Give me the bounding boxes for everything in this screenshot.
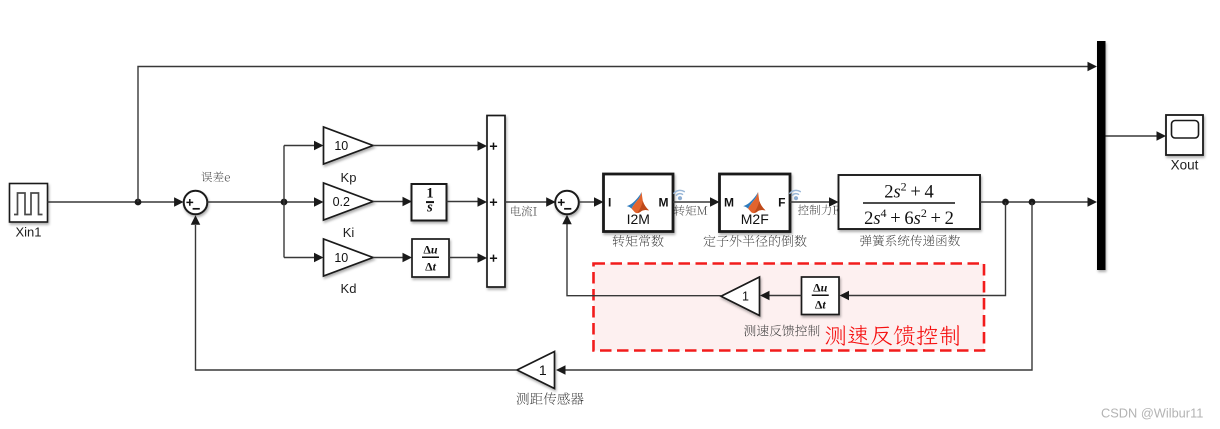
wire distance sensor to sum1 bottom (191, 215, 517, 370)
MATLAB function block M2F (720, 174, 791, 232)
integrator block 1/s (412, 184, 447, 221)
MATLAB function block I2M (604, 174, 674, 232)
svg-text:Δu: Δu (813, 281, 828, 295)
svg-text:2s2 + 4: 2s2 + 4 (884, 180, 934, 203)
svg-text:2s4 + 6s2 + 2: 2s4 + 6s2 + 2 (864, 206, 954, 229)
label 电流I (511, 206, 537, 217)
svg-text:Δt: Δt (425, 260, 437, 274)
wire branch vertical (283, 146, 285, 258)
label 测速反馈控制 (small) (744, 325, 819, 337)
svg-text:M: M (659, 196, 669, 210)
wire transfer fn to mux (980, 197, 1097, 207)
node branch point PID (281, 199, 288, 206)
svg-text:10: 10 (334, 139, 348, 153)
label 弹簧系统传递函数 (860, 235, 960, 247)
wire junction down to derivative fb (840, 202, 1006, 300)
svg-text:M2F: M2F (741, 211, 769, 227)
wire Kp to sum block (373, 141, 487, 151)
wire mux to scope (1106, 131, 1167, 141)
svg-text:10: 10 (334, 251, 348, 265)
mux bar (1097, 41, 1106, 270)
label 转矩M (674, 205, 707, 216)
wire sum block to sum2 (505, 197, 556, 207)
wire branch to Kp (284, 141, 324, 151)
node junction to rate feedback (1002, 199, 1009, 206)
node junction to position feedback (1029, 199, 1036, 206)
svg-text:CSDN @Wilbur11: CSDN @Wilbur11 (1101, 406, 1203, 421)
scope block Xout (1166, 115, 1203, 155)
wire M2F to transfer fn (790, 197, 839, 207)
wire Xin1 to sum1 (48, 197, 184, 207)
wire sum1 to Ki gain (207, 197, 323, 207)
gain Kd value 10 (324, 239, 374, 276)
svg-text:1: 1 (539, 362, 547, 378)
label 定子外半径的倒数 (704, 235, 807, 247)
pulse generator block Xin1 (10, 184, 48, 223)
red dashed annotation box 测速反馈控制 (594, 264, 985, 351)
svg-text:I2M: I2M (627, 211, 650, 227)
label 控制力F (798, 205, 839, 216)
svg-text:Δu: Δu (423, 243, 438, 257)
label 转矩常数 (613, 235, 664, 247)
svg-text:Xin1: Xin1 (15, 225, 41, 240)
logging badge wifi 2 (790, 190, 801, 201)
wire derivative fb to gain fb (760, 291, 802, 301)
wire gain fb to sum2 bottom (562, 215, 721, 296)
sum block (rectangle, three plus inputs) (487, 116, 505, 288)
svg-text:I: I (608, 196, 611, 210)
svg-text:F: F (778, 196, 785, 210)
wire derivative to sum block (449, 253, 487, 263)
gain block 1 distance sensor (points left) (517, 352, 555, 389)
gain Ki value 0.2 (324, 183, 374, 220)
derivative block du/dt (412, 239, 449, 277)
svg-text:0.2: 0.2 (333, 195, 350, 209)
gain Kp value 10 (324, 127, 374, 164)
logging badge wifi 1 (674, 190, 685, 201)
svg-text:Kp: Kp (341, 170, 357, 185)
wire integrator to sum block (447, 197, 488, 207)
wire Ki to integrator (373, 197, 412, 207)
derivative block du/dt feedback (802, 277, 840, 315)
wire Kd to derivative (373, 253, 412, 263)
wire sum2 to I2M (579, 197, 604, 207)
wire junction down to distance sensor (556, 202, 1032, 375)
transfer function block spring system (839, 175, 981, 229)
svg-text:s: s (426, 200, 433, 216)
svg-text:M: M (724, 196, 734, 210)
wire branch to Kd (284, 253, 324, 263)
sum junction 2 (555, 191, 579, 215)
wire top bypass to mux (138, 62, 1097, 202)
svg-text:Ki: Ki (343, 225, 355, 240)
wire I2M to M2F (673, 197, 720, 207)
label 测距传感器 (517, 392, 584, 404)
node junction input branch (135, 199, 142, 206)
label 误差e (201, 172, 229, 183)
sum junction 1 (error) (184, 191, 208, 215)
svg-text:Kd: Kd (341, 281, 357, 296)
svg-text:Δt: Δt (815, 298, 827, 312)
svg-text:1: 1 (742, 290, 749, 304)
svg-text:Xout: Xout (1171, 158, 1199, 173)
gain block 1 rate feedback (points left) (721, 277, 760, 316)
annotation text 测速反馈控制 (red) (826, 325, 959, 346)
